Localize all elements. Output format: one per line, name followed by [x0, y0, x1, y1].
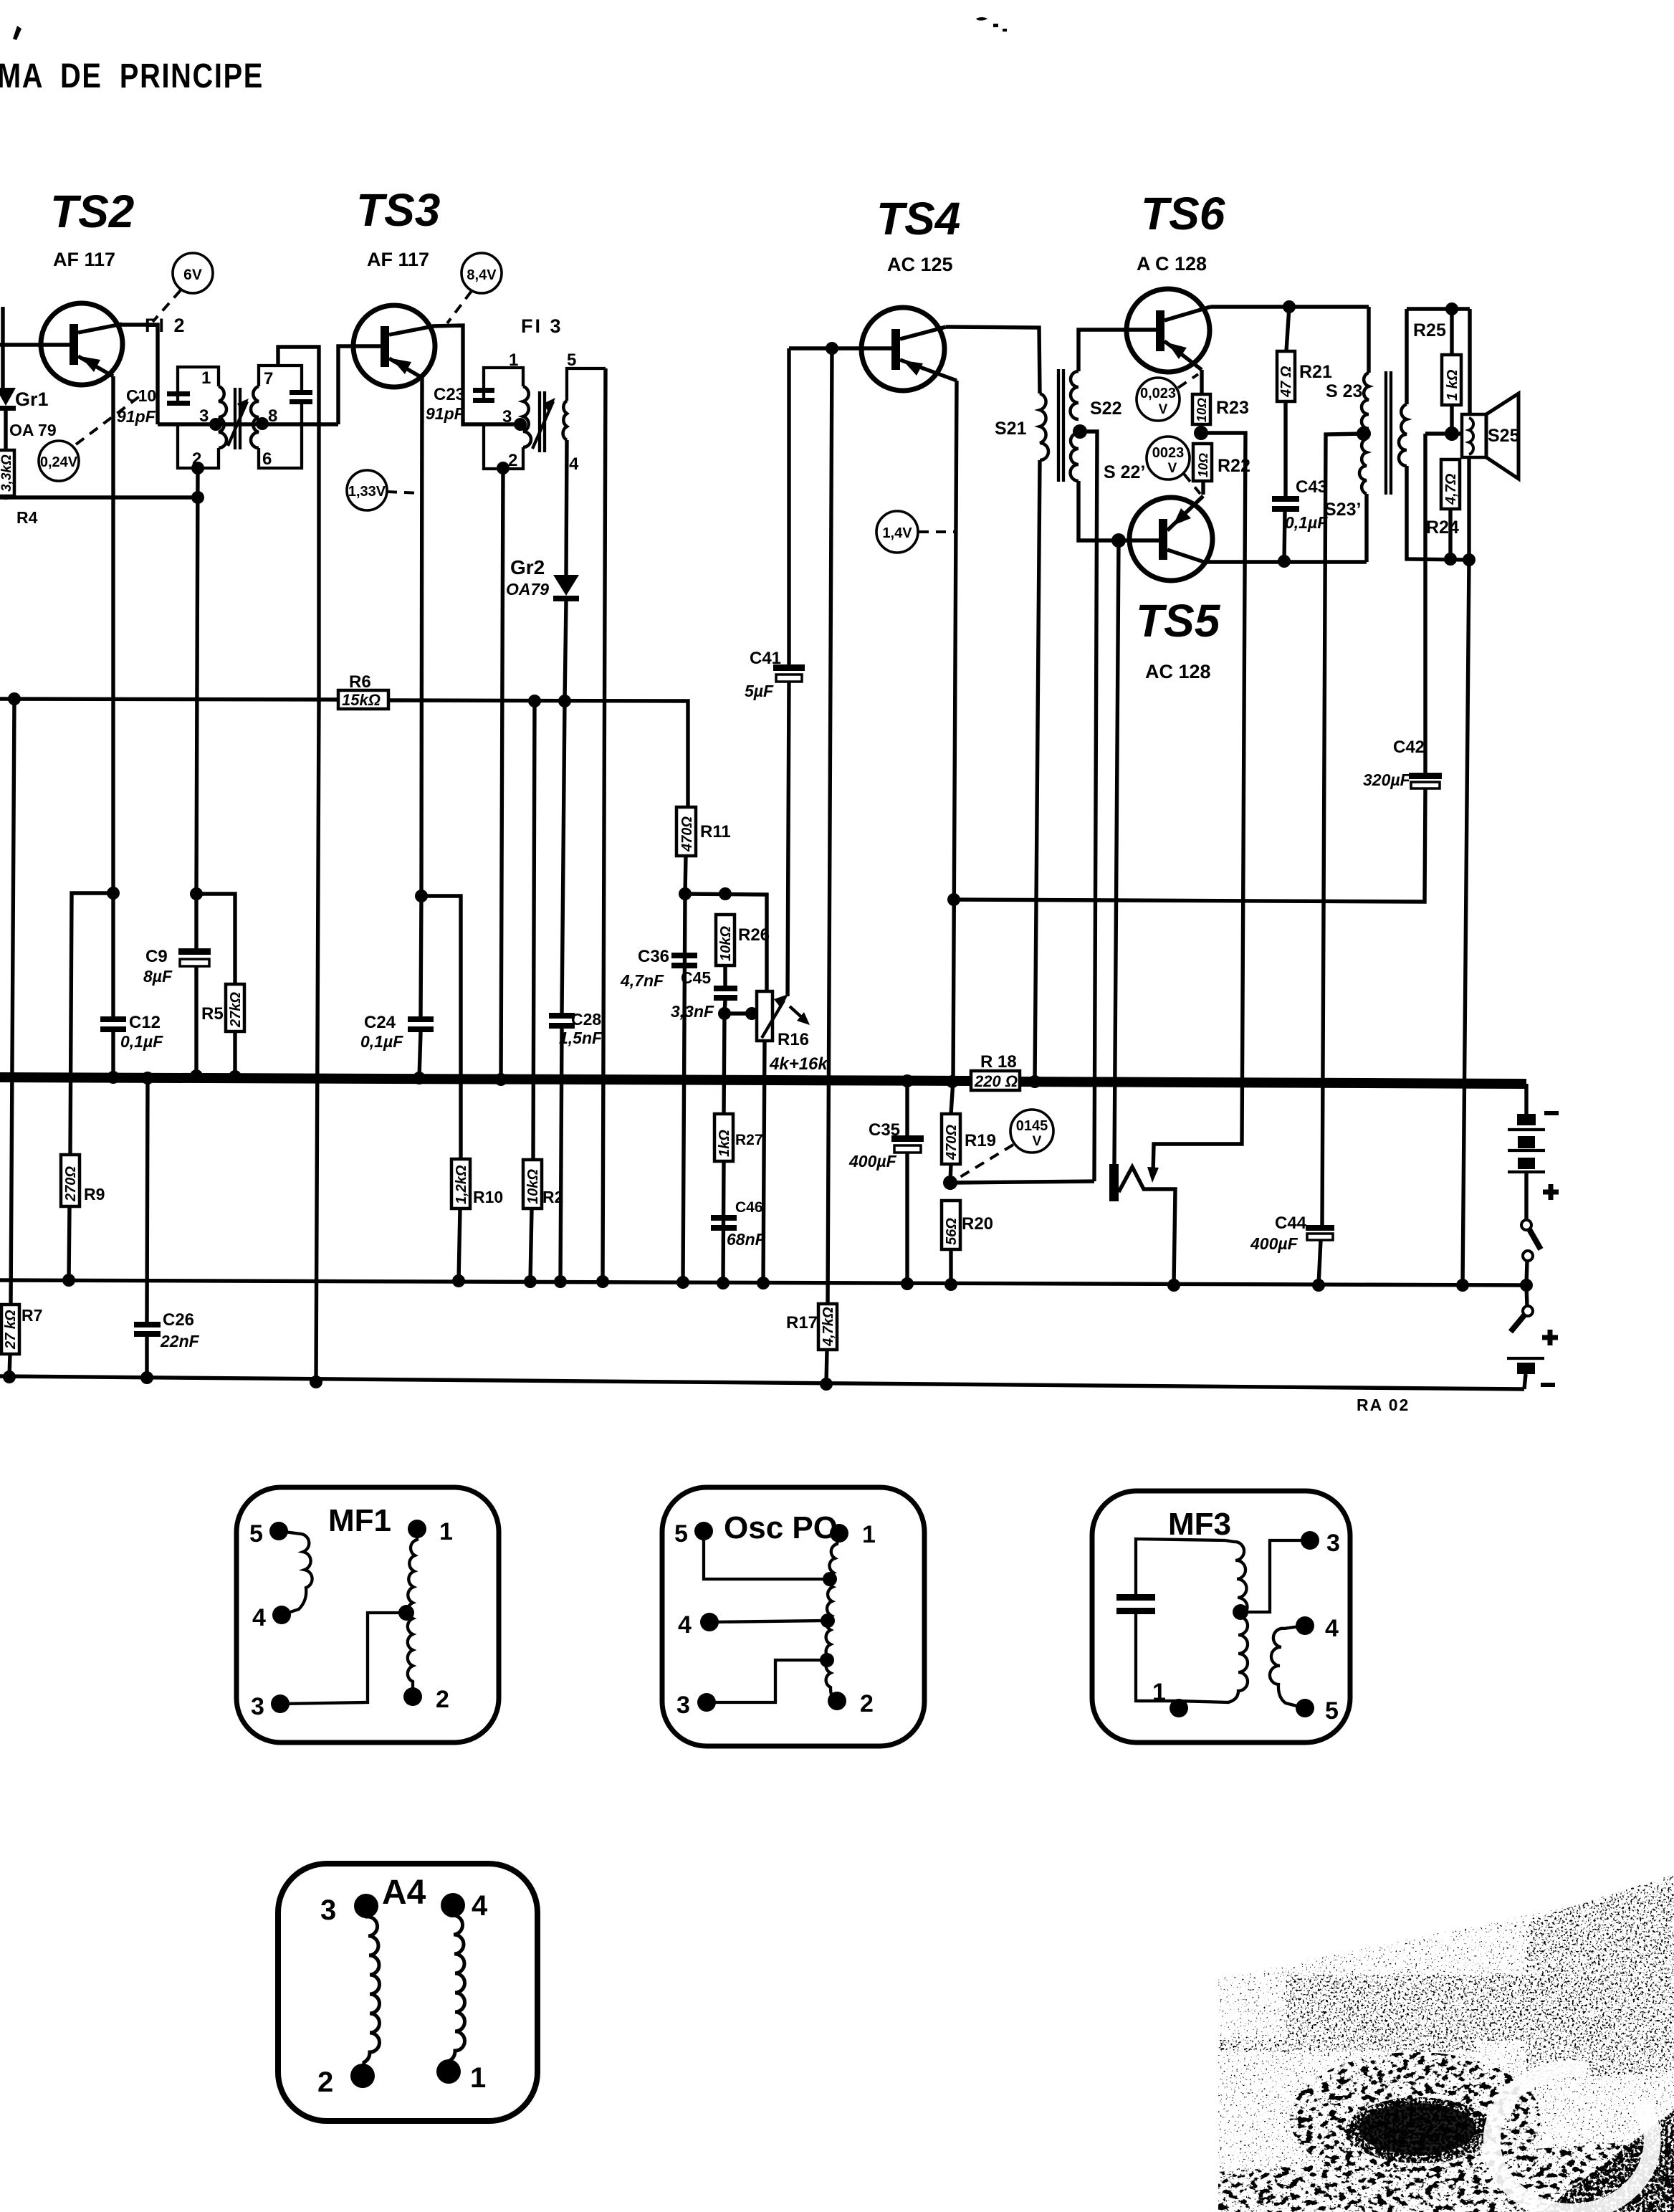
- wire S23' bottom: [1364, 494, 1368, 562]
- svg-text:R7: R7: [21, 1306, 42, 1325]
- junction R7 bottom rail: [3, 1370, 16, 1383]
- resistor R5: [226, 984, 244, 1031]
- capacitor C24: [408, 1016, 434, 1032]
- connector box A4: [278, 1864, 537, 2121]
- wire R9 to mid rail: [69, 1206, 70, 1280]
- svg-text:320µF: 320µF: [1363, 771, 1411, 789]
- resistor R6: [338, 690, 388, 709]
- wire left column (R6 to R7): [11, 699, 14, 1305]
- capacitor C46: [711, 1215, 737, 1231]
- wire TS4 collector column: [951, 381, 957, 1114]
- wire S22 tap branch: [1080, 432, 1097, 1181]
- svg-text:7: 7: [264, 369, 273, 388]
- battery B1: [1508, 1114, 1545, 1172]
- svg-text:470Ω: 470Ω: [944, 1125, 960, 1160]
- svg-text:C45: C45: [681, 968, 711, 987]
- capacitor MF3: [1116, 1539, 1225, 1701]
- svg-text:2: 2: [317, 2066, 333, 2098]
- wire secondary top row: [1407, 307, 1470, 310]
- svg-text:0,1µF: 0,1µF: [360, 1032, 403, 1051]
- capacitor C45: [714, 986, 737, 1001]
- dashed lead 0,023V: [1178, 374, 1198, 388]
- wire OscPO pin4 to tap2: [709, 1621, 823, 1622]
- junction MF3 tap: [1233, 1604, 1248, 1620]
- wire 1989 column: [1423, 434, 1427, 773]
- transistor TS5: [1129, 496, 1213, 581]
- wire S22 top: [1078, 330, 1156, 371]
- potentiometer R16: [757, 991, 810, 1041]
- wire C26 to bottom rail: [145, 1337, 148, 1378]
- wire MF3 tap to pin3: [1240, 1540, 1310, 1612]
- minus sign B2: [1541, 1383, 1555, 1387]
- svg-text:10kΩ: 10kΩ: [525, 1169, 541, 1204]
- coil A4 left: [363, 1906, 380, 2076]
- svg-text:C9: C9: [145, 947, 168, 966]
- wire C35 column: [905, 1081, 909, 1135]
- wire C12 to bus: [111, 1032, 115, 1077]
- wire R17 column: [828, 348, 832, 1304]
- wire C9 column: [194, 894, 198, 948]
- wire bus to battery: [1524, 1084, 1528, 1114]
- svg-text:6V: 6V: [183, 267, 202, 283]
- svg-text:C43: C43: [1296, 477, 1327, 497]
- capacitor C9 (electrolytic): [178, 948, 211, 966]
- mid rail: [0, 1280, 1526, 1285]
- junction S23 tap: [1357, 426, 1371, 441]
- wire TS3 base jog: [338, 346, 381, 424]
- wire C41 to wiper: [788, 682, 789, 996]
- wire TS6 collector to R23: [1200, 370, 1203, 394]
- wire R16 bottom column: [763, 1041, 765, 1283]
- resistor R21: [1277, 351, 1295, 401]
- svg-text:FI 3: FI 3: [521, 315, 563, 337]
- transistor TS4: [861, 308, 957, 391]
- plus sign B2: [1542, 1330, 1558, 1345]
- IF transformer FI3 secondary: [563, 368, 606, 440]
- plus sign B1: [1543, 1184, 1559, 1200]
- junction S22 tap: [1073, 424, 1087, 439]
- wire FI2 pin7 riser: [278, 347, 319, 701]
- pin 4 (OscPO): [678, 1611, 719, 1639]
- wire TS3 emitter column: [421, 378, 422, 896]
- wire S22' bottom to TS5 base: [1078, 481, 1159, 540]
- jack contact spring: [1119, 1167, 1175, 1285]
- svg-text:OA79: OA79: [506, 580, 549, 599]
- svg-text:R24: R24: [1426, 518, 1459, 538]
- svg-text:270Ω: 270Ω: [63, 1166, 79, 1202]
- svg-text:R16: R16: [778, 1030, 809, 1049]
- junction OscPO tap3: [820, 1653, 834, 1667]
- resistor R26: [716, 915, 735, 966]
- svg-text:1,33V: 1,33V: [348, 484, 386, 500]
- voltmeter 1,33V: [347, 470, 387, 510]
- capacitor C43: [1272, 496, 1299, 512]
- pin 1 (OscPO): [830, 1521, 876, 1548]
- junction C9 bus: [190, 1069, 203, 1082]
- wire S23 tap to C44 column: [1322, 434, 1364, 1226]
- svg-text:R25: R25: [1413, 320, 1446, 340]
- wire C24 node branch to R10: [421, 896, 461, 1159]
- svg-text:5: 5: [567, 351, 576, 370]
- wire C45 to R27 node: [724, 1001, 725, 1114]
- pin 4 (A4): [441, 1890, 488, 1922]
- svg-text:3: 3: [502, 407, 512, 426]
- junction C26 bus: [141, 1072, 154, 1084]
- svg-text:1 kΩ: 1 kΩ: [1445, 369, 1460, 401]
- voltmeter 0,023V (upper): [1137, 378, 1180, 421]
- resistor R9: [61, 1155, 80, 1206]
- svg-text:C23: C23: [434, 385, 465, 404]
- battery B2: [1507, 1358, 1544, 1389]
- junction C12 bus: [107, 1071, 120, 1084]
- capacitor C42 (electrolytic): [1409, 773, 1442, 788]
- svg-text:6: 6: [262, 449, 272, 469]
- wire C42 to node row: [954, 788, 1425, 902]
- junction C45 node: [718, 1007, 731, 1020]
- svg-text:R26: R26: [738, 925, 770, 945]
- resistor R17: [818, 1304, 837, 1350]
- resistor R18 (on bus): [971, 1071, 1020, 1090]
- svg-text:91pF: 91pF: [117, 407, 156, 426]
- pin 4 (MF1): [252, 1604, 291, 1631]
- junction FI2 pin3: [209, 418, 222, 431]
- resistor R10: [451, 1159, 470, 1209]
- connector box Osc PO: [662, 1487, 924, 1746]
- svg-text:C44: C44: [1275, 1214, 1307, 1233]
- svg-text:R6: R6: [349, 672, 371, 692]
- svg-text:A4: A4: [382, 1874, 426, 1912]
- pin 2 (OscPO): [828, 1690, 874, 1717]
- pin 1 (A4): [436, 2059, 486, 2094]
- svg-text:1,2kΩ: 1,2kΩ: [454, 1165, 469, 1204]
- svg-text:V: V: [1033, 1134, 1042, 1149]
- wire TS6 emitter row: [1210, 305, 1369, 308]
- core S23/S24: [1386, 371, 1391, 495]
- junction speaker node: [1445, 426, 1459, 441]
- svg-text:Osc PO: Osc PO: [724, 1510, 838, 1545]
- coil A4 right: [449, 1905, 465, 2072]
- wire FI2 pin3 row: [158, 422, 338, 426]
- wire R17 to bottom rail: [826, 1350, 827, 1384]
- svg-text:8µF: 8µF: [143, 967, 173, 986]
- pin 5 (MF3): [1296, 1697, 1339, 1725]
- resistor R24: [1441, 459, 1460, 509]
- svg-text:5: 5: [674, 1520, 688, 1548]
- svg-text:TS3: TS3: [356, 184, 440, 236]
- svg-text:5: 5: [249, 1520, 263, 1548]
- wire node row 1247: [685, 894, 767, 991]
- ink mark top-left: [13, 26, 21, 40]
- voltmeter 0,023V (lower): [1147, 437, 1190, 480]
- dashed lead 1,33V: [387, 492, 420, 493]
- svg-text:C46: C46: [735, 1199, 763, 1216]
- dashed lead 0,023V lower: [1184, 474, 1200, 494]
- junction R5 bus: [229, 1070, 241, 1083]
- wire S23 top drop: [1367, 307, 1370, 373]
- svg-text:5µF: 5µF: [745, 682, 774, 700]
- svg-text:TS2: TS2: [50, 186, 134, 237]
- junction R10 mid rail: [452, 1274, 465, 1287]
- wire R25 drop: [1450, 309, 1453, 355]
- core FI3: [532, 391, 555, 452]
- svg-text:S 23: S 23: [1326, 381, 1362, 401]
- svg-text:C24: C24: [364, 1013, 396, 1032]
- svg-text:MA DE PRINCIPE: MA DE PRINCIPE: [0, 57, 264, 95]
- jack plug bar: [1109, 1164, 1119, 1201]
- junction C24 node: [415, 890, 428, 902]
- junction R24 rail: [1444, 553, 1457, 566]
- svg-text:A C 128: A C 128: [1137, 253, 1207, 275]
- junction R16 col mid rail: [757, 1277, 770, 1289]
- svg-text:R 18: R 18: [980, 1052, 1017, 1072]
- junction FI2 pin8: [256, 417, 269, 430]
- junction R2 mid rail: [524, 1275, 537, 1288]
- resistor R20: [942, 1201, 960, 1249]
- svg-text:AC 128: AC 128: [1145, 661, 1211, 682]
- junction R19/R20 node: [943, 1176, 957, 1190]
- wire C9 node to R5: [196, 894, 235, 984]
- loudspeaker S25: [1462, 394, 1518, 479]
- junction wiper node: [745, 1007, 758, 1020]
- transistor TS2: [0, 303, 123, 385]
- resistor R4: [0, 450, 14, 500]
- svg-text:S25: S25: [1488, 426, 1520, 446]
- dashed lead 8,4V: [447, 291, 472, 323]
- wire FI3 pin2 column: [501, 468, 503, 1079]
- svg-text:3,3nF: 3,3nF: [671, 1002, 714, 1021]
- capacitor C35 (electrolytic): [891, 1135, 924, 1153]
- svg-text:C10: C10: [126, 386, 156, 405]
- junction MF1 tap: [398, 1605, 414, 1621]
- wire TS4 emitter to S21: [946, 327, 1040, 394]
- junction R6 line left: [8, 692, 21, 705]
- svg-text:S22: S22: [1090, 399, 1121, 419]
- voltmeter 0,24V: [39, 441, 79, 481]
- svg-text:R4: R4: [16, 508, 38, 527]
- junction FI2 pin2: [191, 462, 204, 475]
- connector box MF3: [1092, 1491, 1350, 1743]
- junction R22/R23 node: [1194, 426, 1208, 440]
- scan noise / stamp smudge bottom-right (decorative): [1218, 1874, 1674, 2212]
- capacitor C12: [100, 1016, 126, 1032]
- svg-text:470Ω: 470Ω: [679, 816, 695, 852]
- svg-text:1: 1: [201, 368, 211, 388]
- dashed lead 6V: [153, 290, 181, 322]
- wire R25 to node: [1450, 405, 1453, 434]
- junction C28 mid rail: [554, 1275, 567, 1288]
- svg-text:27 kΩ: 27 kΩ: [3, 1310, 19, 1350]
- voltmeter 1,4V: [876, 511, 918, 553]
- coil S23: [1362, 373, 1369, 429]
- svg-text:400µF: 400µF: [848, 1152, 897, 1171]
- svg-text:Gr1: Gr1: [15, 388, 49, 410]
- svg-text:0,1µF: 0,1µF: [120, 1032, 163, 1051]
- svg-text:R5: R5: [201, 1004, 224, 1024]
- svg-text:AF 117: AF 117: [53, 249, 115, 270]
- pin 1 (MF1): [408, 1518, 453, 1545]
- wire R22 to TS5 collector: [1201, 481, 1205, 495]
- wire C36 column: [683, 894, 685, 1282]
- svg-text:22nF: 22nF: [160, 1332, 200, 1350]
- svg-text:R10: R10: [473, 1188, 503, 1206]
- svg-text:2: 2: [508, 451, 517, 470]
- svg-text:S21: S21: [995, 419, 1027, 439]
- resistor R19: [942, 1114, 960, 1164]
- IF transformer FI2 primary: [178, 367, 226, 468]
- svg-text:C12: C12: [129, 1013, 161, 1032]
- coil MF3 right: [1270, 1626, 1305, 1708]
- wire R5 to bus: [233, 1031, 236, 1077]
- svg-text:0023: 0023: [1152, 445, 1185, 461]
- junction R26 top: [719, 887, 732, 900]
- pin 4 (MF3): [1296, 1615, 1339, 1642]
- junction R25 top: [1445, 302, 1458, 315]
- junction C44 mid rail: [1312, 1279, 1325, 1292]
- resistor R23: [1192, 394, 1210, 424]
- junction FI3 right col mid rail: [596, 1275, 609, 1288]
- wire C24 node column upper: [421, 896, 421, 1016]
- junction TS5 base node: [1111, 533, 1126, 548]
- resistor R2: [523, 1160, 542, 1209]
- svg-text:R11: R11: [700, 822, 731, 842]
- wire wiper node row: [724, 1011, 757, 1015]
- diode Gr2: [553, 575, 579, 601]
- svg-text:4,7nF: 4,7nF: [620, 971, 664, 990]
- svg-text:0,023: 0,023: [1140, 386, 1176, 401]
- power bus left segment: [0, 1077, 972, 1081]
- svg-text:4: 4: [678, 1611, 692, 1639]
- wire R19 to node: [950, 1164, 951, 1183]
- wire C44 to mid rail: [1319, 1240, 1321, 1285]
- svg-text:R17: R17: [786, 1313, 818, 1333]
- voltmeter 6V: [173, 253, 213, 293]
- svg-text:10Ω: 10Ω: [1195, 398, 1209, 422]
- wire R22R23 node jog: [1153, 433, 1245, 1173]
- pin 3 (MF3): [1301, 1530, 1340, 1557]
- svg-text:1: 1: [439, 1518, 453, 1545]
- svg-text:R9: R9: [84, 1185, 105, 1203]
- coil MF1 left: [279, 1531, 312, 1615]
- svg-text:TS6: TS6: [1141, 188, 1225, 239]
- svg-text:4: 4: [472, 1890, 488, 1922]
- wire C43 to rail: [1284, 512, 1285, 561]
- junction C35 bus: [901, 1074, 914, 1087]
- junction FI3 pin2: [497, 462, 510, 475]
- wire OscPO pin3 to tap3: [707, 1660, 821, 1702]
- core FI2: [228, 388, 249, 449]
- wire S24 bottom: [1407, 466, 1469, 560]
- svg-text:C36: C36: [638, 947, 669, 966]
- wire R21 drop: [1286, 307, 1289, 351]
- svg-text:3: 3: [199, 406, 209, 426]
- wire TS4 base row: [789, 346, 891, 350]
- wire R21 to C43: [1283, 401, 1287, 496]
- wire R26 to C45: [723, 966, 727, 986]
- wire R6 line right part: [388, 700, 688, 807]
- wire node line y694: [0, 495, 198, 499]
- wire R7 to bottom rail: [9, 1354, 10, 1377]
- svg-text:3,3kΩ: 3,3kΩ: [0, 454, 14, 492]
- svg-text:8: 8: [268, 406, 277, 426]
- svg-text:15kΩ: 15kΩ: [342, 691, 381, 709]
- svg-text:MF1: MF1: [328, 1503, 391, 1538]
- wire MF1 tap to pin3: [280, 1613, 406, 1704]
- capacitor C26: [134, 1322, 161, 1337]
- wire S21 bottom column: [1035, 460, 1040, 1082]
- capacitor C10: [167, 391, 190, 406]
- junction OscPO tap2: [821, 1613, 835, 1628]
- svg-text:1kΩ: 1kΩ: [717, 1130, 732, 1157]
- wire FI3 sec right column: [603, 368, 606, 1282]
- junction C36 col mid rail: [676, 1276, 689, 1289]
- capacitor C36: [671, 953, 697, 968]
- pin 2 (MF1): [403, 1686, 449, 1713]
- diode Gr1: [0, 388, 16, 450]
- svg-text:4,7kΩ: 4,7kΩ: [821, 1307, 836, 1347]
- svg-text:S 22’: S 22’: [1104, 462, 1145, 482]
- wire OscPO pin5 to tap1: [704, 1531, 827, 1579]
- dashed lead 0,24V: [76, 394, 143, 444]
- pin 3 (OscPO): [676, 1692, 716, 1719]
- coil S22: [1071, 371, 1079, 419]
- svg-text:TS4: TS4: [876, 193, 960, 244]
- svg-text:10kΩ: 10kΩ: [718, 926, 734, 961]
- resistor R11: [676, 807, 696, 856]
- svg-text:10Ω: 10Ω: [1196, 453, 1210, 477]
- svg-text:2: 2: [860, 1690, 874, 1717]
- dashed lead 1,4V: [919, 530, 956, 533]
- wire TS5 emitter rail: [1204, 560, 1367, 563]
- wire TS2 emitter col lower: [111, 376, 115, 1016]
- svg-text:Gr2: Gr2: [510, 556, 545, 578]
- svg-text:R23: R23: [1216, 398, 1249, 418]
- svg-text:1: 1: [862, 1521, 876, 1548]
- svg-text:C28: C28: [571, 1010, 601, 1029]
- svg-text:1,4V: 1,4V: [882, 525, 912, 541]
- wire R2 column upper: [533, 701, 535, 1160]
- junction Gr2 col R6 line: [558, 695, 571, 707]
- svg-text:OA 79: OA 79: [9, 421, 57, 439]
- transistor TS3: [353, 305, 435, 387]
- junction speaker col mid rail: [1456, 1279, 1469, 1292]
- wire R10 to mid rail: [459, 1209, 460, 1281]
- svg-text:0,24V: 0,24V: [40, 454, 78, 470]
- junction FI3 pin2 col bus: [494, 1073, 507, 1086]
- junction R27 mid rail: [717, 1277, 730, 1289]
- junction C12 node: [107, 887, 120, 900]
- wire speaker node row: [1425, 432, 1462, 435]
- wire C9 to bus: [194, 966, 198, 1076]
- core S21/S22: [1058, 369, 1063, 482]
- wire left edge top: [1, 307, 4, 388]
- capacitor FI2 secondary cap: [290, 390, 312, 404]
- svg-text:4: 4: [1325, 1615, 1339, 1642]
- svg-text:C35: C35: [869, 1120, 900, 1140]
- coil MF3: [1136, 1540, 1248, 1702]
- wire R11 to node row: [685, 856, 686, 894]
- wire C28 to mid rail: [560, 1029, 562, 1282]
- wire C24 to bus: [419, 1032, 421, 1078]
- bottom rail: [0, 1376, 1524, 1389]
- capacitor C41 (electrolytic): [773, 664, 805, 682]
- coil Osc PO: [826, 1533, 839, 1701]
- svg-text:4,7Ω: 4,7Ω: [1443, 473, 1459, 505]
- pin 2 (A4): [317, 2064, 375, 2098]
- minus sign B1: [1544, 1111, 1559, 1115]
- svg-text:400µF: 400µF: [1250, 1234, 1298, 1253]
- pin 3 (A4): [320, 1894, 378, 1926]
- jack wiper arrowhead: [1147, 1167, 1159, 1183]
